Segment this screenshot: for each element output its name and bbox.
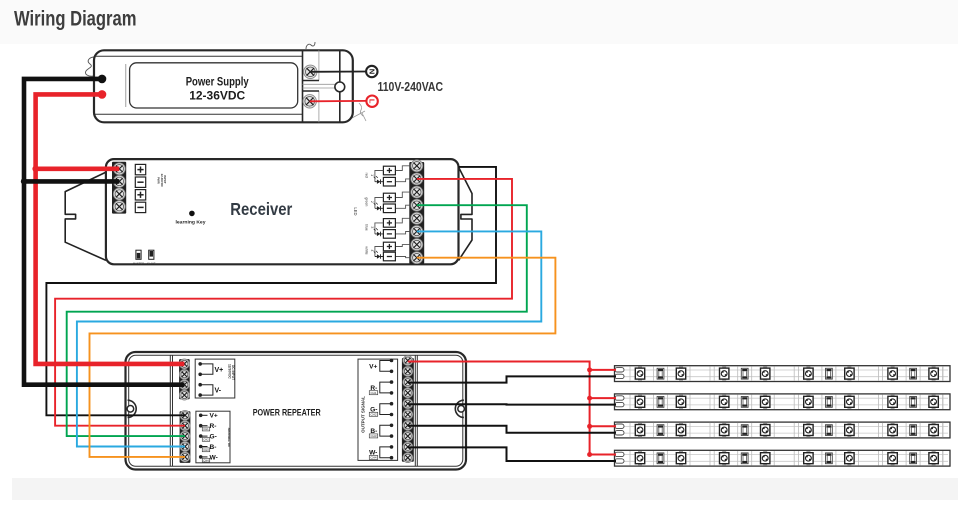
svg-text:CH2: CH2 (203, 438, 209, 442)
svg-text:L: L (368, 99, 377, 104)
svg-text:Power Supply: Power Supply (186, 75, 249, 89)
svg-text:R-: R- (210, 423, 217, 430)
svg-text:LED: LED (353, 207, 358, 215)
svg-text:V+: V+ (215, 367, 224, 374)
svg-text:3: 3 (370, 226, 374, 228)
svg-text:CH1: CH1 (370, 391, 376, 395)
svg-text:white: white (364, 246, 368, 254)
svg-text:MASTER: MASTER (133, 262, 144, 266)
svg-text:CH2: CH2 (370, 413, 376, 417)
svg-text:Wiring Diagram: Wiring Diagram (14, 7, 137, 31)
svg-text:red: red (364, 173, 368, 178)
svg-text:learning Key: learning Key (176, 220, 207, 225)
svg-text:W-: W- (210, 454, 218, 461)
svg-text:G-: G- (210, 434, 217, 441)
svg-text:CH3: CH3 (370, 434, 376, 438)
svg-text:POWER REPEATER: POWER REPEATER (253, 407, 321, 417)
svg-text:green: green (364, 197, 368, 206)
svg-text:CH4: CH4 (203, 458, 209, 462)
svg-text:CH4: CH4 (370, 456, 376, 460)
svg-text:4: 4 (370, 250, 374, 252)
svg-text:blue: blue (364, 224, 368, 231)
svg-text:OUTPUT SIGNAL: OUTPUT SIGNAL (360, 396, 365, 433)
svg-text:12/36VDC: 12/36VDC (227, 364, 231, 379)
svg-text:V+: V+ (210, 413, 218, 420)
svg-text:CH1: CH1 (203, 427, 209, 431)
svg-text:SLAVE: SLAVE (147, 262, 156, 266)
svg-text:1: 1 (370, 174, 374, 176)
svg-text:110V-240VAC: 110V-240VAC (378, 80, 444, 94)
svg-text:N: N (367, 69, 376, 74)
svg-text:SIGNAL IN: SIGNAL IN (227, 427, 231, 446)
svg-text:12-36VDC: 12-36VDC (189, 89, 245, 103)
svg-text:CH3: CH3 (203, 448, 209, 452)
svg-text:V+: V+ (369, 363, 377, 370)
svg-text:PWR: PWR (156, 177, 160, 185)
svg-text:2: 2 (370, 201, 374, 203)
svg-text:B-: B- (210, 444, 217, 451)
svg-text:Receiver: Receiver (230, 199, 292, 219)
svg-text:V-: V- (215, 388, 222, 395)
